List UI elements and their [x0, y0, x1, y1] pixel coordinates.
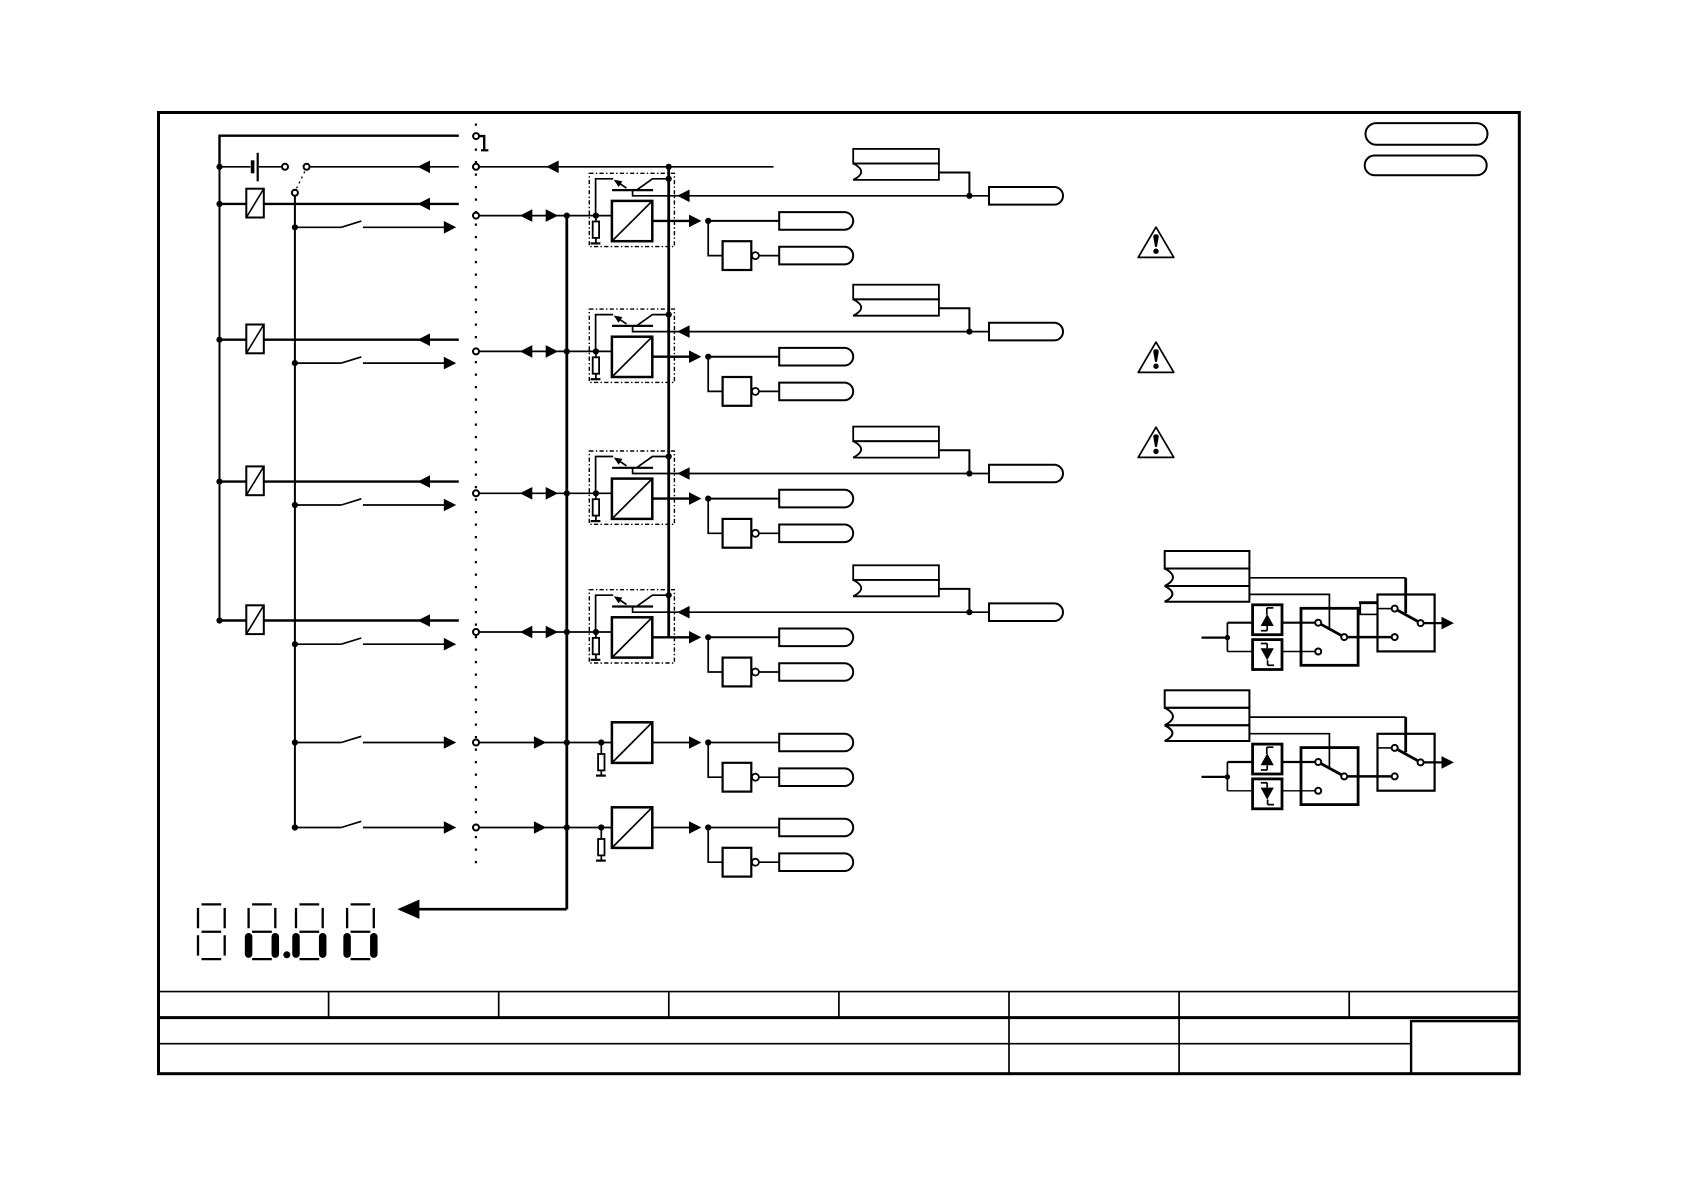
resistor R1: [595, 216, 597, 222]
junction DI2 on signal bus: [564, 490, 570, 496]
title block cell divider 5 full height: [1008, 992, 1010, 1074]
selector 1 blade MOP2: [1321, 764, 1342, 775]
wire emitter Q2 to input node: [596, 315, 614, 350]
wire switch row 5 to terminal: [363, 742, 445, 744]
relay coil K2: [246, 325, 263, 354]
arrow DI5 input: [534, 821, 546, 834]
junction coil row 1 on rail: [216, 201, 222, 207]
junction DI4 on signal bus: [564, 739, 570, 745]
junction switch row 6: [292, 824, 298, 830]
connector inverted status DI1: [779, 383, 853, 401]
level converter block U6: [612, 807, 652, 848]
wire parameter elbow DI3: [939, 589, 970, 612]
level converter block U4: [612, 617, 652, 657]
junction base line DI3: [966, 609, 972, 615]
selector switch box 2 MOP2: [1378, 734, 1435, 791]
selector 2 blade MOP2: [1397, 749, 1418, 760]
wire switch row 6 to terminal: [363, 827, 445, 829]
selector 1 contact a MOP1: [1315, 620, 1321, 626]
selector 2 contact a MOP1: [1378, 608, 1392, 610]
wire terminal DI3 to isolator input: [479, 631, 612, 633]
title block cell divider 4: [838, 992, 840, 1018]
wire output to connector DI1: [708, 356, 779, 358]
wire selector1 to selector2 MOP1: [1347, 636, 1391, 639]
battery G1: [251, 160, 255, 173]
selector rail: [294, 196, 296, 828]
level converter block U3: [612, 479, 652, 519]
seven segment digit 3: [296, 904, 323, 959]
wire output U6: [652, 827, 689, 829]
arrow into base Q4: [677, 606, 689, 619]
wire inverted output DI4: [759, 776, 779, 778]
switch S5 contact blade: [295, 742, 341, 744]
resistor R2: [595, 351, 597, 357]
switch S2 contact blade: [295, 362, 341, 364]
wire output to connector DI3: [708, 636, 779, 638]
arrow pair bidirectional DI2: [520, 487, 532, 500]
level converter block U1: [612, 201, 652, 241]
wire to inverter DI5: [708, 828, 722, 863]
junction base line DI1: [966, 329, 972, 335]
wire switch row 2 to terminal: [363, 362, 445, 364]
terminal node DI4: [473, 740, 479, 746]
junction DI0 on signal bus: [564, 213, 570, 219]
terminal node DI3: [473, 629, 479, 635]
junction switch row 2: [292, 360, 298, 366]
wire input MOP2: [1202, 776, 1228, 778]
arrow pair bidirectional DI0: [520, 209, 532, 222]
arrow DI4 input: [534, 736, 546, 749]
wire output U1: [652, 220, 689, 222]
terminal node battery row: [473, 164, 479, 170]
wire output U2: [652, 356, 689, 358]
title block cell divider 2: [498, 992, 500, 1018]
switch S4 contact blade: [295, 643, 341, 645]
wire raise to selector MOP2: [1282, 761, 1315, 763]
junction switch row 1: [292, 224, 298, 230]
terminal node DI2: [473, 490, 479, 496]
selector 2 contact b MOP1: [1392, 634, 1398, 640]
wire base drive Q1: [633, 190, 989, 196]
switch S6 contact blade: [295, 827, 341, 829]
title block revision box: [1411, 1021, 1519, 1074]
wire to inverter DI2: [708, 499, 722, 534]
logic NOT gate DI1: [723, 377, 752, 406]
arrow switch row 5: [444, 736, 456, 749]
title block thick divider line: [159, 1016, 1520, 1019]
junction coil row 4 on rail: [216, 617, 222, 623]
junction input MOP2: [1225, 774, 1230, 779]
seven segment digit 2: [249, 904, 276, 959]
junction DI1 on signal bus: [564, 348, 570, 354]
junction output DI5: [705, 824, 711, 830]
wire emitter Q3 to input node: [596, 457, 614, 492]
arrow switch row 3: [444, 499, 456, 512]
seven segment digit 4: [347, 904, 374, 959]
terminal node DI1: [473, 348, 479, 354]
selector 1 contact b MOP1: [1315, 649, 1321, 655]
junction collector Q2 on bus: [666, 312, 672, 318]
connector readback r2: [989, 323, 1063, 341]
ground tick R2: [591, 378, 601, 380]
selector 2 contact b MOP2: [1392, 773, 1398, 779]
terminal node DI5: [473, 825, 479, 831]
arrow into display: [397, 900, 419, 919]
level converter block U2: [612, 337, 652, 377]
wire to raise lower MOP2: [1226, 762, 1228, 791]
relay coil K4: [246, 605, 263, 634]
selector switch box 2 MOP1: [1378, 595, 1435, 652]
arrow battery row: [418, 161, 430, 174]
wire lower to selector MOP1: [1282, 651, 1315, 653]
warning sign 3: [1138, 427, 1174, 457]
optocoupler U3 dotted enclosure: [589, 451, 674, 524]
wire parameter elbow DI1: [939, 308, 970, 331]
arrow output U3: [689, 492, 701, 505]
wire 24V supply right side: [479, 166, 774, 168]
selector 1 contact a MOP2: [1315, 759, 1321, 765]
raise block MOP1: [1253, 605, 1282, 635]
warning sign 1: [1138, 227, 1174, 257]
title block middle line: [159, 1043, 1412, 1045]
junction coil row 2 on rail: [216, 337, 222, 343]
junction switch row 4: [292, 641, 298, 647]
terminal strip dashed line X2: [475, 124, 477, 866]
wire output U5: [652, 742, 689, 744]
wire output MOP2: [1424, 761, 1442, 763]
junction output DI2: [705, 496, 711, 502]
junction output DI4: [705, 739, 711, 745]
connector status DI1: [779, 348, 853, 366]
wire control B MOP1: [1249, 594, 1329, 628]
wire output to connector DI4: [708, 742, 779, 744]
connector inverted status DI3: [779, 663, 853, 681]
arrow output U6: [689, 821, 701, 834]
arrow into coil row 1: [418, 198, 430, 211]
title block cell divider 7: [1348, 992, 1350, 1018]
selector 2 output contact MOP2: [1418, 759, 1424, 765]
title block cell divider 6 full height: [1178, 992, 1180, 1074]
lower block MOP2: [1253, 779, 1282, 809]
wire to inverter DI4: [708, 743, 722, 778]
transistor Q2: [612, 325, 653, 327]
wire inverted output DI1: [759, 390, 779, 392]
logic NOT gate DI0: [723, 241, 752, 270]
wire switch row 4 to terminal: [363, 643, 445, 645]
terminal node PE with ground hook: [473, 133, 479, 139]
transistor Q1: [612, 189, 653, 191]
left supply rail: [219, 167, 221, 621]
connector status DI3: [779, 628, 853, 646]
wire emitter Q1 to input node: [596, 179, 614, 214]
wire battery row to terminal: [310, 166, 459, 168]
title block top line: [159, 991, 1520, 993]
connector status DI0: [779, 212, 853, 230]
switch S1 contact blade: [295, 226, 341, 228]
title block cell divider 3: [668, 992, 670, 1018]
junction base line DI0: [966, 193, 972, 199]
selector 1 output contact MOP1: [1341, 634, 1347, 640]
wire base drive Q2: [633, 326, 989, 332]
arrow into coil row 4: [418, 614, 430, 627]
connector status DI2: [779, 490, 853, 508]
parameter book stack MOP2: [1165, 690, 1250, 708]
junction base line DI2: [966, 470, 972, 476]
logo stadium badge 2: [1365, 156, 1487, 176]
raise block MOP2: [1253, 744, 1282, 774]
junction input node U2: [593, 348, 599, 354]
arrow switch row 2: [444, 357, 456, 370]
selector 1 blade MOP1: [1321, 624, 1342, 635]
junction input node row 6: [598, 824, 604, 830]
seven segment digit 1: [198, 904, 225, 959]
selector switch box 1 MOP1: [1301, 608, 1358, 665]
junction collector Q1 on bus: [666, 176, 672, 182]
arrow on 24V line: [546, 161, 558, 174]
wire terminal DI0 to isolator input: [479, 215, 612, 217]
switch S0 contact b: [304, 164, 310, 170]
wire signal bus to display: [409, 908, 567, 911]
junction DI3 on signal bus: [564, 629, 570, 635]
arrow pair bidirectional DI3: [520, 626, 532, 639]
ground tick R4: [591, 659, 601, 661]
wire control A MOP2: [1249, 716, 1405, 718]
wire inverted output DI5: [759, 861, 779, 863]
logic NOT gate DI5: [723, 848, 752, 877]
parameter tag box MOP1: [1360, 603, 1377, 615]
logo stadium badge 1: [1366, 123, 1488, 145]
connector inverted status DI5: [779, 853, 853, 871]
transistor Q4: [612, 605, 653, 607]
signal bus vertical wire: [565, 216, 568, 910]
wire parameter elbow DI2: [939, 450, 970, 473]
wire to raise lower MOP1: [1226, 623, 1228, 652]
wire emitter Q4 to input node: [596, 595, 614, 630]
arrow into base Q2: [677, 325, 689, 338]
wire inverted output DI0: [759, 255, 779, 257]
junction coil row 3 on rail: [216, 479, 222, 485]
wire output U3: [652, 497, 689, 499]
title block cell divider 1: [328, 992, 330, 1018]
arrow switch row 4: [444, 638, 456, 651]
junction input MOP1: [1225, 635, 1230, 640]
junction output DI0: [705, 218, 711, 224]
selector 1 contact b MOP2: [1315, 788, 1321, 794]
junction input node U3: [593, 490, 599, 496]
parameter book P2: [853, 285, 939, 300]
wire terminal DI5 to converter: [479, 827, 612, 829]
warning sign 2: [1138, 342, 1174, 372]
junction collector Q3 on bus: [666, 453, 672, 459]
parameter book P4: [853, 565, 939, 580]
switch S0 contact a: [282, 164, 288, 170]
logic NOT gate DI4: [723, 763, 752, 792]
junction output DI3: [705, 634, 711, 640]
arrow output U5: [689, 736, 701, 749]
arrow into base Q1: [677, 190, 689, 203]
wire lower to selector MOP2: [1282, 790, 1315, 792]
switch S0 linkage dashed: [297, 172, 305, 189]
optocoupler U2 dotted enclosure: [589, 309, 674, 382]
arrow pair bidirectional DI1: [520, 345, 532, 358]
selector switch box 1 MOP2: [1301, 748, 1358, 805]
switch S3 contact blade: [295, 504, 341, 506]
wire output MOP1: [1424, 622, 1442, 624]
terminal node DI0: [473, 213, 479, 219]
wire to inverter DI0: [708, 221, 722, 256]
junction battery rail: [216, 164, 222, 170]
connector status DI4: [779, 734, 853, 752]
wire battery to switch contact: [259, 166, 282, 168]
arrow switch row 1: [444, 221, 456, 234]
wire terminal DI1 to isolator input: [479, 350, 612, 352]
ground tick R1: [591, 242, 601, 244]
wire to inverter DI1: [708, 357, 722, 392]
wire switch row 3 to terminal: [363, 504, 445, 506]
arrow into coil row 2: [418, 333, 430, 346]
wire switch row 1 to terminal: [363, 226, 445, 228]
optocoupler U4 dotted enclosure: [589, 590, 674, 663]
arrow into base Q3: [677, 467, 689, 480]
wire to inverter DI3: [708, 637, 722, 672]
level converter block U5: [612, 722, 652, 763]
connector readback r1: [989, 187, 1063, 205]
transistor Q3: [612, 467, 653, 469]
connector inverted status DI2: [779, 525, 853, 543]
wire battery row left: [220, 166, 251, 168]
junction DI5 on signal bus: [564, 824, 570, 830]
arrow into coil row 3: [418, 475, 430, 488]
decimal point of display: [283, 951, 290, 958]
resistor R3: [595, 493, 597, 499]
resistor R5: [600, 743, 602, 755]
junction collector Q4 on bus: [666, 592, 672, 598]
connector inverted status DI4: [779, 768, 853, 786]
switch S0 pivot contact: [292, 190, 298, 196]
wire output to connector DI0: [708, 220, 779, 222]
arrow output MOP2: [1442, 756, 1454, 769]
wire coil row 4: [220, 619, 459, 621]
wire output to connector DI5: [708, 827, 779, 829]
junction 24V at bus: [666, 164, 672, 170]
common bus vertical wire: [667, 167, 670, 638]
junction input node row 5: [598, 739, 604, 745]
arrow output U2: [689, 350, 701, 363]
wire coil row 3: [220, 480, 459, 482]
wire selector1 to selector2 MOP2: [1347, 775, 1391, 778]
junction switch row 3: [292, 502, 298, 508]
wire terminal DI2 to isolator input: [479, 492, 612, 494]
resistor R6: [600, 828, 602, 840]
parameter book P3: [853, 427, 939, 442]
arrow switch row 6: [444, 821, 456, 834]
page border frame: [159, 113, 1520, 1074]
selector 2 output contact MOP1: [1418, 620, 1424, 626]
wire terminal DI4 to converter: [479, 742, 612, 744]
connector status DI5: [779, 819, 853, 837]
parameter book P1: [853, 149, 939, 164]
wire parameter elbow DI0: [939, 173, 970, 196]
selector 2 blade MOP1: [1397, 610, 1418, 621]
junction input node U1: [593, 213, 599, 219]
wire input MOP1: [1202, 636, 1228, 638]
ground tick R3: [591, 520, 601, 522]
lower block MOP1: [1253, 640, 1282, 670]
wire top supply line: [220, 136, 459, 167]
connector inverted status DI0: [779, 247, 853, 265]
ground tick R5: [596, 774, 606, 776]
wire control B MOP2: [1249, 734, 1329, 768]
parameter book stack MOP1: [1165, 551, 1250, 569]
logic NOT gate DI2: [723, 519, 752, 548]
selector 2 contact a MOP2: [1378, 747, 1392, 749]
junction input node U4: [593, 629, 599, 635]
optocoupler U1 dotted enclosure: [589, 173, 674, 246]
wire output U4: [652, 636, 689, 638]
wire inverted output DI2: [759, 532, 779, 534]
arrow output U1: [689, 215, 701, 228]
arrow output MOP1: [1442, 617, 1454, 630]
ground tick R6: [596, 859, 606, 861]
resistor R4: [595, 632, 597, 638]
junction output DI1: [705, 354, 711, 360]
wire control A MOP1: [1249, 577, 1405, 579]
wire base drive Q4: [633, 607, 989, 613]
wire coil row 2: [220, 339, 459, 341]
wire inverted output DI3: [759, 671, 779, 673]
connector readback r4: [989, 603, 1063, 621]
selector 1 output contact MOP2: [1341, 773, 1347, 779]
wire base drive Q3: [633, 468, 989, 474]
wire output to connector DI2: [708, 498, 779, 500]
relay coil K1: [246, 189, 263, 218]
junction switch row 5: [292, 739, 298, 745]
logic NOT gate DI3: [723, 658, 752, 687]
relay coil K3: [246, 466, 263, 495]
connector readback r3: [989, 465, 1063, 483]
arrow output U4: [689, 631, 701, 644]
wire coil row 1: [220, 203, 459, 205]
wire raise to selector MOP1: [1282, 622, 1315, 624]
